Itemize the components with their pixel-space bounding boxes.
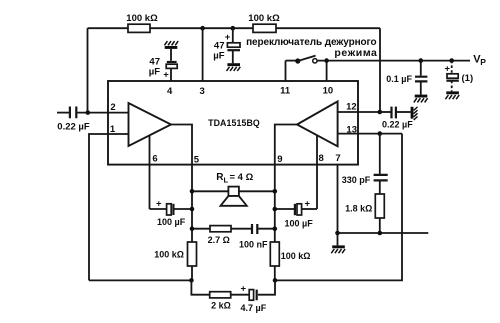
- svg-text:100 µF: 100 µF: [285, 219, 314, 229]
- wire pin 8 tap from A2 lower edge: [316, 136, 318, 209]
- wire bottom left rail: [89, 279, 191, 281]
- node bottom rail junctions: [189, 278, 277, 283]
- pin 6 label: [152, 154, 157, 165]
- svg-text:7: 7: [335, 153, 340, 164]
- switch S1 (standby): [246, 37, 377, 63]
- svg-text:11: 11: [280, 86, 291, 97]
- svg-text:100 kΩ: 100 kΩ: [281, 251, 311, 261]
- wire pin 6 tap from A1 lower edge: [149, 135, 151, 209]
- pin 10 label: [323, 86, 334, 97]
- svg-text:+: +: [305, 199, 311, 210]
- pin 13 label: [346, 125, 357, 136]
- svg-text:100 µF: 100 µF: [157, 217, 186, 227]
- ground (inverted): [164, 41, 178, 49]
- pin 2 label: [110, 102, 115, 113]
- svg-text:= 4 Ω: = 4 Ω: [230, 172, 254, 183]
- IC U1 TDA1515BQ: [108, 81, 358, 165]
- capacitor C5 (1) electrolytic dashed to ground: [444, 58, 473, 99]
- resistor R6 100 kOhm right: [270, 242, 310, 280]
- svg-text:3: 3: [199, 86, 204, 97]
- ground (pin 7 bus): [331, 233, 345, 253]
- pin 3 label: [199, 86, 204, 97]
- svg-text:режима: режима: [334, 47, 377, 59]
- capacitor C11 4.7uF: [241, 284, 267, 314]
- wire left vertical from rail to input node: [87, 28, 89, 112]
- wire pin 13 to feedback column: [338, 133, 402, 135]
- svg-text:100 kΩ: 100 kΩ: [154, 250, 184, 260]
- svg-text:2 kΩ: 2 kΩ: [211, 301, 231, 311]
- node input junction: [86, 110, 91, 115]
- svg-text:+: +: [241, 284, 247, 295]
- pin 4 label: [167, 86, 173, 97]
- resistor R3 1.8 kOhm: [345, 194, 384, 233]
- op-amp A2 (right, points left): [297, 101, 338, 146]
- svg-text:0.1 µF: 0.1 µF: [386, 74, 412, 84]
- pin 11 label: [280, 86, 291, 97]
- wire A1 output to pin 5 column: [171, 125, 192, 243]
- svg-text:2.7 Ω: 2.7 Ω: [208, 235, 230, 245]
- svg-text:4: 4: [167, 86, 173, 97]
- capacitor C3 input 0.22uF: [57, 107, 129, 133]
- svg-text:100 kΩ: 100 kΩ: [248, 13, 280, 24]
- resistor R1 100 kOhm: [126, 13, 158, 32]
- capacitor C4 0.1uF to ground: [386, 58, 427, 102]
- svg-text:8: 8: [318, 153, 323, 164]
- svg-text:1: 1: [110, 124, 116, 135]
- svg-text:9: 9: [277, 154, 282, 165]
- node junction on rail at pin3 drop: [200, 26, 205, 31]
- capacitor C10 100 nF: [239, 224, 277, 250]
- resistor R5 100 kOhm left: [154, 242, 196, 280]
- svg-text:2: 2: [110, 102, 115, 113]
- svg-text:100 kΩ: 100 kΩ: [126, 13, 158, 24]
- wire vertical x=380 rail to pin 12 node: [379, 28, 381, 112]
- node junction on rail at 47uF drop: [231, 26, 236, 31]
- wire pin 12 to node: [338, 111, 380, 113]
- capacitor C6 0.22uF pin12 to ground: [380, 107, 418, 130]
- svg-text:+: +: [225, 32, 231, 43]
- svg-text:1.8 kΩ: 1.8 kΩ: [345, 204, 372, 214]
- wire pin 10 stub: [326, 61, 328, 81]
- pin 1 label: [110, 124, 116, 135]
- pin 9 label: [277, 154, 282, 165]
- svg-text:100 nF: 100 nF: [239, 240, 268, 250]
- svg-text:L: L: [224, 176, 229, 185]
- node VP label: [473, 54, 486, 67]
- resistor R4 2.7 Ohm: [190, 226, 251, 245]
- svg-text:0.22 µF: 0.22 µF: [382, 120, 413, 130]
- resistor R7 2 kOhm: [210, 292, 231, 311]
- svg-text:+: +: [444, 63, 450, 74]
- svg-text:µF: µF: [213, 51, 224, 62]
- node pin 12 junction: [378, 110, 383, 115]
- pin 5 label: [194, 155, 200, 166]
- wire pin 3 stub from rail to IC top: [202, 28, 204, 81]
- svg-text:330 pF: 330 pF: [342, 175, 371, 185]
- wire right feedback column down to bottom rail: [275, 134, 402, 281]
- wire pin 11 stub: [285, 61, 287, 81]
- capacitor C8 100uF left: [150, 199, 195, 228]
- svg-text:P: P: [480, 57, 486, 67]
- svg-text:0.22 µF: 0.22 µF: [57, 122, 90, 133]
- pin 8 label: [318, 153, 323, 164]
- svg-text:+: +: [163, 70, 169, 81]
- wire bottom loop: [191, 280, 275, 294]
- wire top feedback rail: [88, 27, 381, 29]
- svg-text:TDA1515BQ: TDA1515BQ: [208, 118, 260, 128]
- speaker RL 4 Ohm: [190, 172, 277, 206]
- resistor R2 100 kOhm: [248, 13, 280, 32]
- node pin 13 junction: [378, 131, 383, 136]
- svg-text:12: 12: [346, 102, 357, 113]
- pin 7 label: [335, 153, 340, 164]
- pin 12 label: [346, 102, 357, 113]
- capacitor C9 100uF right: [273, 199, 318, 229]
- wire ground bus: [335, 231, 428, 236]
- wire VP rail: [317, 58, 470, 63]
- wire pin 7 column to ground bus: [337, 165, 339, 233]
- svg-text:6: 6: [152, 154, 157, 165]
- capacitor C7 330 pF: [342, 134, 388, 194]
- svg-text:5: 5: [194, 155, 200, 166]
- capacitor C2 47uF (rail decoupling, ground below): [213, 28, 240, 71]
- svg-text:4.7 µF: 4.7 µF: [241, 303, 267, 313]
- wire A2 output to pin 9 column: [275, 125, 297, 243]
- op-amp A1 (left, points right): [129, 103, 172, 146]
- svg-text:+: +: [156, 199, 162, 210]
- svg-text:µF: µF: [149, 67, 160, 78]
- capacitor C1 47uF (pin 4, inverted ground above): [149, 41, 178, 81]
- svg-text:10: 10: [323, 86, 334, 97]
- svg-text:(1): (1): [462, 73, 474, 84]
- wire pin 1 feedback left: to left vertical and down to bottom rail: [89, 134, 129, 280]
